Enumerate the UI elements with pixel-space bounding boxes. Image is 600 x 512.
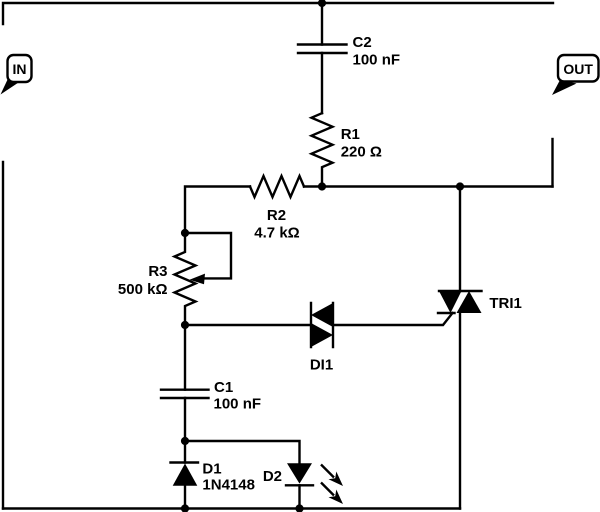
svg-text:100 nF: 100 nF: [214, 396, 262, 413]
resistor R1: [312, 113, 333, 186]
svg-text:D1: D1: [202, 461, 221, 478]
junction node D2 / bottom rail: [295, 504, 303, 512]
svg-text:R1: R1: [341, 126, 360, 143]
svg-text:OUT: OUT: [563, 61, 593, 77]
junction node R1 bottom / rail: [318, 182, 326, 190]
capacitor C1: [161, 325, 209, 441]
triac TRI1: [438, 291, 482, 313]
svg-text:220 Ω: 220 Ω: [341, 144, 382, 161]
diode D1 body: [171, 463, 199, 486]
flag IN: [1, 55, 32, 95]
flag OUT: [552, 55, 599, 95]
svg-text:100 nF: 100 nF: [353, 52, 401, 69]
wire C1 node to D2: [185, 441, 300, 463]
wire triac vertical bottom: [459, 313, 461, 509]
wire triac vertical top: [459, 187, 461, 292]
diode D1 leads: [184, 441, 186, 509]
junction node triac / rail: [456, 182, 464, 190]
capacitor C2: [298, 3, 347, 113]
svg-text:IN: IN: [13, 61, 27, 77]
svg-text:C1: C1: [214, 379, 233, 396]
junction node R3 bottom / diac: [181, 321, 189, 329]
svg-text:4.7 kΩ: 4.7 kΩ: [254, 225, 299, 242]
svg-text:TRI1: TRI1: [489, 295, 522, 312]
svg-text:DI1: DI1: [310, 357, 333, 374]
LED D2 lower lead: [298, 485, 300, 508]
wire mid rail left of R2: [185, 187, 250, 234]
potentiometer R3: [175, 233, 232, 325]
svg-text:1N4148: 1N4148: [202, 477, 255, 494]
junction node D1 / bottom rail: [181, 504, 189, 512]
wire mid rail right of R2: [304, 185, 553, 187]
potentiometer R3 wiper arrowhead: [190, 274, 206, 285]
resistor R2: [250, 176, 304, 197]
svg-text:R3: R3: [148, 263, 167, 280]
wire R3 node to diac: [185, 324, 311, 326]
wire diac to triac gate: [334, 313, 453, 325]
wire OUT stub: [551, 139, 553, 187]
diac DI1: [311, 303, 333, 347]
wire left side vertical: [2, 162, 4, 509]
wire top rail with left stub: [3, 3, 553, 24]
wire bottom rail: [3, 507, 460, 509]
svg-text:C2: C2: [353, 34, 372, 51]
LED D2 body: [286, 463, 313, 485]
svg-text:D2: D2: [263, 468, 282, 485]
junction node C1 / D1 / D2: [181, 437, 189, 445]
LED D2 emission arrows: [321, 465, 343, 505]
junction node top rail / C2: [318, 0, 326, 7]
svg-text:R2: R2: [267, 207, 286, 224]
junction node R3 top / wiper: [181, 229, 189, 237]
svg-text:500 kΩ: 500 kΩ: [118, 281, 168, 298]
